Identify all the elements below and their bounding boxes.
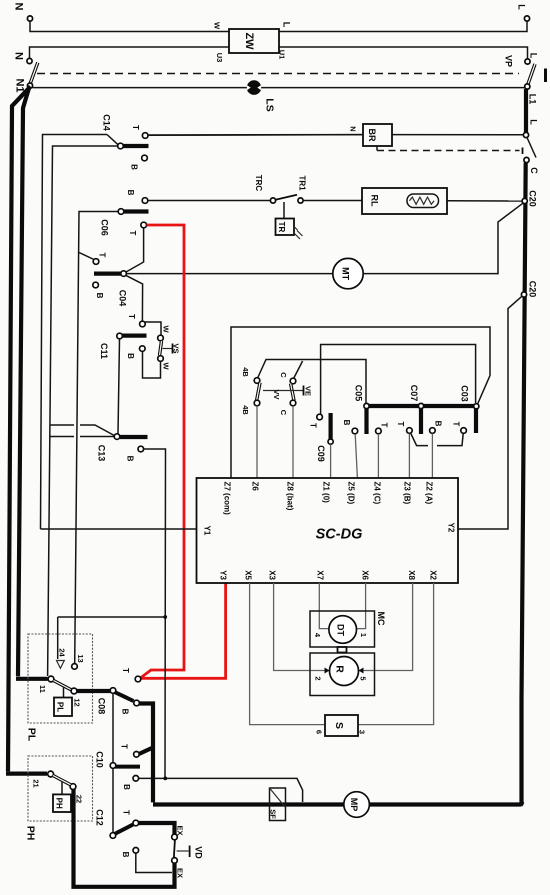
svg-text:B: B — [130, 164, 139, 170]
svg-text:B: B — [434, 421, 443, 427]
svg-text:C13: C13 — [97, 445, 107, 462]
svg-text:PL: PL — [26, 728, 38, 742]
svg-text:L: L — [529, 119, 539, 125]
svg-text:B: B — [122, 784, 131, 790]
svg-text:T: T — [121, 668, 130, 673]
svg-text:B: B — [121, 852, 130, 858]
svg-text:22: 22 — [75, 795, 84, 803]
svg-text:Z6: Z6 — [251, 482, 260, 492]
svg-text:T: T — [396, 422, 405, 427]
svg-text:C20: C20 — [528, 190, 538, 207]
svg-text:C12: C12 — [95, 809, 105, 826]
svg-text:PH: PH — [25, 826, 37, 841]
svg-text:T: T — [122, 810, 131, 815]
svg-text:N: N — [13, 3, 25, 11]
svg-text:VE: VE — [304, 386, 313, 396]
svg-text:EX: EX — [176, 825, 185, 835]
svg-text:C04: C04 — [118, 290, 128, 307]
svg-text:X5: X5 — [244, 570, 253, 580]
svg-text:3: 3 — [358, 730, 367, 734]
svg-text:U3: U3 — [215, 53, 224, 63]
svg-text:VD: VD — [194, 846, 204, 859]
svg-text:T: T — [98, 253, 107, 258]
svg-text:2: 2 — [314, 676, 323, 680]
svg-text:C: C — [279, 372, 288, 378]
svg-text:TRC: TRC — [254, 175, 263, 192]
svg-text:T: T — [127, 314, 136, 319]
svg-text:VP: VP — [504, 55, 514, 67]
svg-text:C06: C06 — [100, 219, 110, 236]
svg-text:Z1 (0): Z1 (0) — [322, 482, 331, 504]
svg-text:24: 24 — [58, 648, 67, 657]
svg-text:Z4 (C): Z4 (C) — [373, 482, 382, 505]
svg-text:B: B — [126, 353, 135, 359]
svg-text:N1: N1 — [14, 78, 26, 92]
svg-text:S: S — [333, 722, 345, 729]
svg-text:L: L — [517, 4, 527, 10]
svg-text:TR1: TR1 — [298, 175, 307, 191]
svg-text:C20: C20 — [528, 281, 538, 298]
svg-text:13: 13 — [76, 654, 85, 662]
svg-text:SF: SF — [269, 809, 278, 819]
svg-text:RL: RL — [370, 195, 380, 207]
svg-text:W: W — [162, 362, 171, 370]
svg-text:X6: X6 — [361, 570, 370, 580]
svg-text:4B: 4B — [241, 367, 250, 377]
svg-text:U1: U1 — [278, 50, 287, 60]
svg-text:C14: C14 — [102, 114, 112, 131]
svg-text:T: T — [309, 423, 318, 428]
svg-text:LS: LS — [264, 98, 276, 111]
svg-text:B: B — [126, 190, 135, 196]
svg-text:T: T — [120, 744, 129, 749]
svg-text:21: 21 — [32, 779, 41, 787]
svg-text:B: B — [342, 420, 351, 426]
svg-text:MP: MP — [349, 798, 359, 812]
svg-text:C07: C07 — [409, 385, 419, 402]
svg-text:T: T — [452, 422, 461, 427]
svg-text:X8: X8 — [407, 570, 416, 580]
svg-text:R: R — [334, 665, 346, 673]
svg-text:X7: X7 — [316, 570, 325, 580]
svg-text:1: 1 — [359, 633, 368, 637]
svg-text:X2: X2 — [429, 570, 438, 580]
svg-text:L: L — [529, 53, 539, 59]
svg-text:Z2 (A): Z2 (A) — [425, 482, 434, 505]
svg-text:C10: C10 — [95, 751, 105, 768]
svg-text:MC: MC — [376, 612, 386, 626]
svg-text:VV: VV — [272, 389, 281, 399]
svg-text:N: N — [13, 52, 25, 60]
svg-text:C09: C09 — [316, 445, 326, 462]
svg-text:BR: BR — [367, 129, 377, 142]
svg-text:MT: MT — [341, 267, 351, 280]
svg-text:W: W — [162, 325, 171, 333]
svg-text:12: 12 — [73, 698, 82, 706]
svg-text:B: B — [121, 709, 130, 715]
svg-text:C03: C03 — [460, 385, 470, 402]
svg-text:C11: C11 — [99, 343, 109, 359]
svg-text:6: 6 — [315, 730, 324, 734]
svg-text:Z7 (com): Z7 (com) — [223, 482, 232, 516]
svg-text:B: B — [126, 456, 135, 462]
svg-text:W: W — [213, 22, 222, 30]
svg-text:C: C — [529, 167, 539, 174]
svg-text:PH: PH — [55, 798, 64, 809]
svg-text:T: T — [380, 423, 389, 428]
svg-text:N: N — [349, 126, 358, 131]
svg-text:B: B — [95, 293, 104, 299]
svg-text:C08: C08 — [97, 698, 107, 715]
svg-text:C05: C05 — [354, 385, 364, 402]
svg-text:C: C — [279, 410, 288, 416]
svg-text:ZW: ZW — [243, 32, 255, 50]
svg-text:5: 5 — [359, 676, 368, 680]
svg-text:X3: X3 — [268, 570, 277, 580]
svg-text:VS: VS — [172, 343, 181, 353]
svg-text:4B: 4B — [241, 405, 250, 415]
svg-text:PL: PL — [56, 702, 65, 712]
svg-text:T: T — [131, 125, 140, 130]
svg-text:L: L — [282, 22, 292, 28]
svg-text:DT: DT — [336, 624, 346, 636]
svg-text:Y2: Y2 — [447, 523, 456, 533]
svg-text:L1: L1 — [528, 94, 538, 105]
svg-text:Z5 (D): Z5 (D) — [347, 482, 356, 505]
svg-text:TR: TR — [277, 222, 286, 233]
svg-text:SC-DG: SC-DG — [316, 527, 363, 543]
svg-text:T: T — [128, 231, 137, 236]
svg-text:11: 11 — [38, 685, 47, 693]
svg-text:Z3 (B): Z3 (B) — [403, 482, 412, 505]
svg-text:Y3: Y3 — [219, 570, 228, 580]
svg-text:EX: EX — [176, 868, 185, 878]
svg-text:Z8 (bat): Z8 (bat) — [286, 482, 295, 511]
svg-text:Y1: Y1 — [203, 526, 212, 536]
